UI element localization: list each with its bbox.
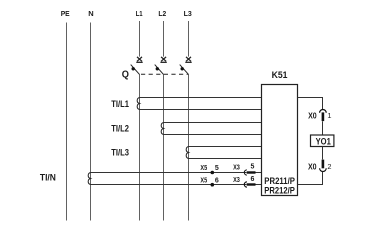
connector X0 pin 2 pin <box>322 160 325 169</box>
wire TI/N s1 <box>91 172 247 174</box>
connector X0 pin 1 socket <box>320 109 327 112</box>
svg-text:TI/L2: TI/L2 <box>111 123 129 134</box>
svg-text:X0: X0 <box>308 112 317 121</box>
svg-text:TI/L1: TI/L1 <box>111 99 129 110</box>
wire TI/L2 s2 <box>164 134 262 136</box>
wire L2 bottom <box>163 74 165 220</box>
breaker Q pole 3 <box>180 57 192 75</box>
svg-text:6: 6 <box>215 178 219 185</box>
connector X3 pin 5 pin <box>247 171 256 173</box>
wire TI/L1 s1 <box>140 97 262 99</box>
svg-text:PR212/P: PR212/P <box>264 185 295 195</box>
connector X3 pin 5 socket <box>244 170 247 175</box>
wire K51 to X0:1 <box>298 98 323 111</box>
svg-text:Q: Q <box>122 70 129 81</box>
connector X3 pin 5 wire <box>256 172 262 174</box>
wire TI/N s2 <box>91 184 247 186</box>
wire L1 top <box>139 21 141 57</box>
svg-text:X3: X3 <box>233 177 240 184</box>
svg-text:L2: L2 <box>158 9 166 18</box>
svg-text:L1: L1 <box>136 9 143 18</box>
wire L2 top <box>163 21 165 57</box>
svg-text:TI/L3: TI/L3 <box>111 148 129 159</box>
CT TI/L2 winding <box>161 123 163 135</box>
wire YO1 to X0:2 <box>322 147 324 160</box>
coil YO1 box <box>311 135 334 147</box>
svg-text:1: 1 <box>327 111 331 120</box>
connector X3 pin 6 socket <box>244 182 247 187</box>
breaker Q pole 2 <box>155 57 167 75</box>
connector X0 pin 2 socket <box>320 168 327 171</box>
svg-text:5: 5 <box>215 165 219 172</box>
svg-text:X0: X0 <box>308 162 317 171</box>
svg-text:X5: X5 <box>200 178 207 185</box>
svg-text:TI/N: TI/N <box>40 173 56 184</box>
svg-text:2: 2 <box>327 162 331 171</box>
wire L1 bottom <box>139 74 141 220</box>
svg-text:X5: X5 <box>200 165 207 172</box>
connector X5 pin 5 dot <box>211 171 215 175</box>
svg-text:6: 6 <box>251 176 255 183</box>
wire L3 top <box>188 21 190 57</box>
svg-text:K51: K51 <box>272 70 289 81</box>
CT TI/N winding <box>88 173 90 185</box>
svg-text:N: N <box>88 9 93 18</box>
connector X5 pin 6 dot <box>211 183 215 187</box>
wire TI/L3 s1 <box>189 146 262 148</box>
wire PE <box>66 23 68 221</box>
svg-text:5: 5 <box>251 163 255 170</box>
connector X0 pin 1 pin <box>322 112 325 121</box>
breaker Q linkage (dashed) <box>141 73 188 75</box>
svg-text:YO1: YO1 <box>316 136 331 146</box>
connector X3 pin 6 wire <box>256 184 262 186</box>
wire X0:2 back to K51 <box>298 172 323 185</box>
wire X0:1 to YO1 <box>322 121 324 135</box>
wire N <box>90 23 92 221</box>
connector X3 pin 6 pin <box>247 183 256 185</box>
svg-text:PE: PE <box>61 9 70 18</box>
wire TI/L3 s2 <box>189 158 262 160</box>
wire TI/L1 s2 <box>140 109 262 111</box>
relay K51 box <box>262 85 298 196</box>
CT TI/L1 winding <box>137 98 139 110</box>
svg-text:L3: L3 <box>184 9 192 18</box>
CT TI/L3 winding <box>186 147 188 159</box>
svg-text:X3: X3 <box>233 165 240 172</box>
wire L3 bottom <box>188 74 190 220</box>
breaker Q pole 1 <box>131 57 143 75</box>
wire TI/L2 s1 <box>164 122 262 124</box>
